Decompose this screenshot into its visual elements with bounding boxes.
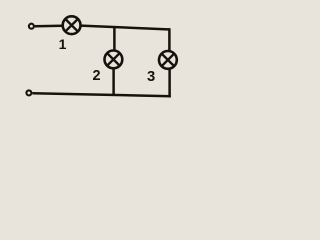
lamp X1 <box>63 16 81 34</box>
paper background <box>0 0 212 114</box>
wire lamp 3 down to bottom-right corner <box>169 69 170 96</box>
wire top-right corner down to lamp 3 <box>169 30 170 51</box>
wire lamp 2 down to bottom rail <box>112 69 115 97</box>
wire junction drop to lamp 2 <box>113 26 116 50</box>
svg-text:1: 1 <box>59 36 67 52</box>
terminal T2 (bottom-left) <box>26 90 31 95</box>
lamp X2 <box>105 51 123 69</box>
wire T1 to lamp 1 <box>35 24 62 27</box>
wire top rail: lamp 1 to top-right corner <box>81 26 171 30</box>
svg-text:3: 3 <box>147 69 155 85</box>
lamp X3 <box>159 51 177 69</box>
svg-text:2: 2 <box>92 68 100 84</box>
wire bottom rail: terminal T2 to bottom-right corner <box>32 93 170 96</box>
terminal T1 (top-left) <box>29 24 34 29</box>
